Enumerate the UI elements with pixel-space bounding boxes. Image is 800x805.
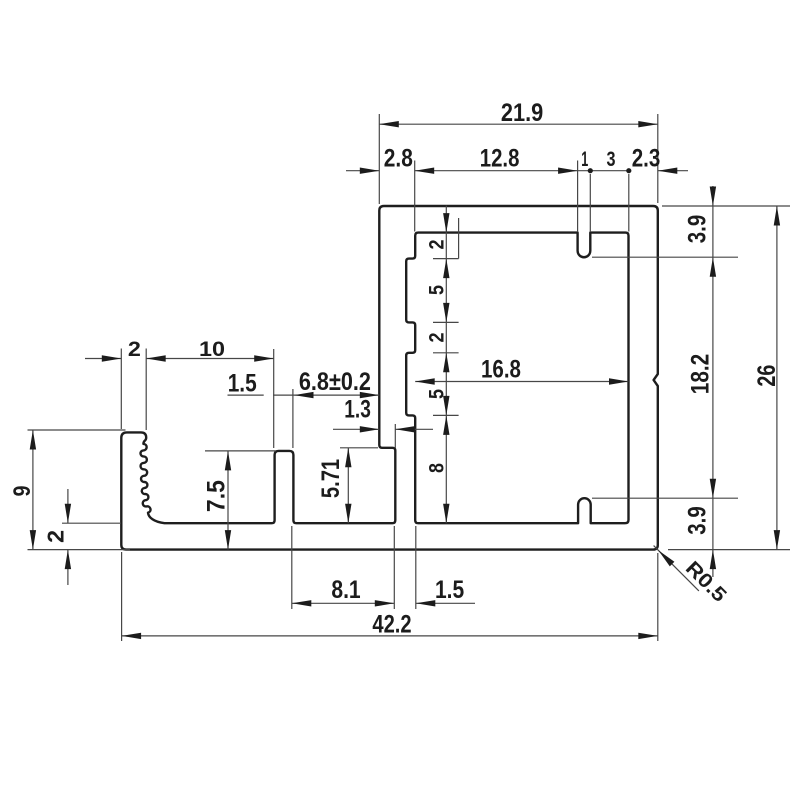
svg-text:1.5: 1.5 xyxy=(435,576,464,604)
svg-text:1: 1 xyxy=(581,148,588,171)
dim 21.9 xyxy=(379,99,658,204)
svg-text:3.9: 3.9 xyxy=(684,506,712,535)
right dims xyxy=(592,186,790,577)
svg-text:18.2: 18.2 xyxy=(687,354,715,395)
svg-text:5: 5 xyxy=(426,389,449,399)
dims 2 5 2 5 8 xyxy=(426,206,459,524)
svg-text:2: 2 xyxy=(426,240,449,250)
svg-text:42.2: 42.2 xyxy=(372,610,411,638)
svg-text:8.1: 8.1 xyxy=(331,576,360,604)
svg-text:16.8: 16.8 xyxy=(481,356,521,384)
dim 1.3 xyxy=(333,396,433,449)
svg-text:26: 26 xyxy=(753,365,781,387)
svg-text:2: 2 xyxy=(426,333,449,343)
svg-text:3: 3 xyxy=(607,148,616,171)
dims 8.1 1.5 42.2 xyxy=(122,526,658,641)
dims 1.5 6.8 xyxy=(228,368,380,448)
svg-text:1.5: 1.5 xyxy=(228,369,257,397)
svg-text:9: 9 xyxy=(9,486,36,497)
svg-text:7.5: 7.5 xyxy=(203,480,231,512)
svg-text:5: 5 xyxy=(426,285,449,295)
svg-text:2: 2 xyxy=(42,530,68,543)
dim 5.71 xyxy=(317,448,378,523)
left dims 9 2 xyxy=(9,430,130,585)
svg-text:10: 10 xyxy=(199,338,225,361)
svg-text:5.71: 5.71 xyxy=(317,459,345,498)
svg-text:3.9: 3.9 xyxy=(684,215,712,244)
dim 16.8 xyxy=(415,356,628,385)
svg-text:21.9: 21.9 xyxy=(501,99,543,127)
svg-text:2.8: 2.8 xyxy=(384,145,413,173)
svg-text:12.8: 12.8 xyxy=(480,145,520,173)
svg-text:2: 2 xyxy=(128,338,141,361)
profile outline xyxy=(121,206,658,550)
svg-text:6.8±0.2: 6.8±0.2 xyxy=(299,368,371,396)
svg-text:1.3: 1.3 xyxy=(344,396,371,424)
dims 2 10 xyxy=(85,338,274,448)
dim 7.5 xyxy=(203,451,277,550)
svg-text:8: 8 xyxy=(426,463,449,473)
svg-text:2.3: 2.3 xyxy=(632,145,661,173)
R0.5 xyxy=(654,546,731,607)
dims 2.8 12.8 1 3 2.3 xyxy=(346,145,688,232)
inner cavity xyxy=(406,233,628,524)
